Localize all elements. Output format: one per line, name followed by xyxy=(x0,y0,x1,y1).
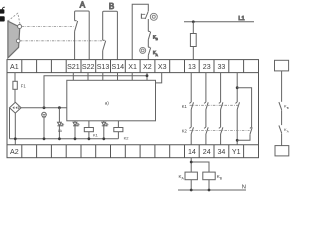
internal bottom bus xyxy=(10,138,119,140)
contact K2 on feedback branch xyxy=(250,127,252,134)
junction X2 stub xyxy=(146,74,149,77)
logic block a) xyxy=(67,80,156,121)
contact K2 on 33-34 xyxy=(219,127,223,134)
linkage K2 row (dash-dot) xyxy=(190,130,250,132)
terminal labels bottom row xyxy=(10,148,241,156)
svg-text:X3: X3 xyxy=(158,63,167,71)
junction feedback top xyxy=(236,86,239,89)
svg-text:S14: S14 xyxy=(111,63,124,71)
guard door open position (dashed outline) xyxy=(8,13,20,25)
net L1 xyxy=(184,21,254,23)
svg-text:B: B xyxy=(287,106,289,110)
output path 13-14 with contacts K1,K2 xyxy=(190,73,192,145)
internal supply bus xyxy=(21,107,67,109)
power supply unit (diamond) xyxy=(10,102,22,113)
junction LED2 x bottom bus xyxy=(74,137,77,140)
svg-text:23: 23 xyxy=(203,63,211,71)
mechanical link lower beam xyxy=(20,40,102,42)
wire KA to X2 xyxy=(147,55,149,59)
contact KA external xyxy=(279,125,282,133)
svg-text:N: N xyxy=(242,185,246,191)
net N xyxy=(178,189,246,191)
stub S14 xyxy=(117,73,119,81)
relay block outline xyxy=(7,60,259,158)
external device lower box (right column) xyxy=(275,146,289,156)
switch B enclosure with NC contact in left edge xyxy=(103,11,118,59)
contact K2 on 13-14 xyxy=(189,127,193,134)
svg-text:S13: S13 xyxy=(97,63,110,71)
svg-text:K2: K2 xyxy=(124,136,130,141)
svg-text:A1: A1 xyxy=(10,63,19,71)
feedback branch with contact K2 xyxy=(237,88,251,141)
svg-text:X1: X1 xyxy=(128,63,137,71)
stub S13 xyxy=(102,73,104,81)
svg-text:A: A xyxy=(156,53,158,57)
LED2 from logic block to bottom bus xyxy=(73,121,79,139)
icon padlock top-left xyxy=(0,7,5,13)
external device upper box (right column) xyxy=(275,60,289,71)
junction on L1 xyxy=(192,20,195,23)
guard door (gray panel) xyxy=(8,21,20,58)
svg-text:34: 34 xyxy=(217,148,225,156)
contact K1 on 23-24 xyxy=(204,102,208,109)
stub S21 xyxy=(72,73,74,81)
wire X2 terminal loop to supply bus xyxy=(44,73,147,108)
wire power supply to A2 xyxy=(14,113,16,145)
contact K2 on 23-24 xyxy=(204,127,208,134)
junction X2 drop x supply bus xyxy=(43,106,46,109)
svg-text:F1: F1 xyxy=(21,84,27,89)
junction LED1 x bottom bus xyxy=(58,137,61,140)
symbol circle at KA contact xyxy=(140,47,146,53)
svg-text:14: 14 xyxy=(188,148,196,156)
svg-text:33: 33 xyxy=(217,63,225,71)
svg-text:B: B xyxy=(156,37,158,41)
wire button to contact KB xyxy=(147,19,149,31)
hinge node lower xyxy=(16,39,20,43)
svg-text:S22: S22 xyxy=(82,63,95,71)
fuse F1 xyxy=(13,81,17,89)
start pushbutton S (manual actuator) xyxy=(141,12,148,20)
svg-text:K2: K2 xyxy=(182,128,188,133)
wire KA to lower box xyxy=(281,133,283,145)
svg-text:24: 24 xyxy=(203,148,211,156)
wire fuse to terminal 13 xyxy=(192,47,194,60)
varistor / clamp element on X2 drop xyxy=(42,112,47,117)
contact KA (feedback) in start unit xyxy=(148,47,150,55)
wire KB to KA external xyxy=(281,110,283,125)
start unit E wire from X1 up and over xyxy=(132,4,148,59)
internal rail from supply left vertex down xyxy=(9,108,11,139)
symbol circle at start button xyxy=(150,13,157,20)
terminal cell dividers xyxy=(22,60,244,158)
junction LED1 x supply bus xyxy=(58,106,61,109)
junction K1 x bottom bus xyxy=(88,137,91,140)
junction KA x N xyxy=(190,189,193,192)
svg-text:K1: K1 xyxy=(93,133,99,138)
svg-text:A: A xyxy=(287,129,289,133)
svg-text:A: A xyxy=(80,0,86,9)
contactor coil KB xyxy=(203,172,215,180)
svg-text:a): a) xyxy=(105,101,110,106)
junction A2 wire x bottom bus xyxy=(14,137,17,140)
svg-text:A2: A2 xyxy=(10,148,19,156)
relay coil K1 xyxy=(84,121,93,139)
linkage K1 row (dash-dot) xyxy=(190,104,239,106)
contact K1 on 33-34 xyxy=(219,102,223,109)
junction KB x N xyxy=(208,189,211,192)
junction feedback bottom xyxy=(236,139,239,142)
stub X1 xyxy=(131,73,133,81)
wire A1 to fuse F1 xyxy=(14,73,16,82)
junction clamp x bottom bus xyxy=(43,137,46,140)
hinge node upper xyxy=(18,25,22,29)
output path 23-24 with contacts K1,K2 xyxy=(205,73,207,145)
LED1 with wire from supply bus to bottom bus xyxy=(57,108,63,139)
wire F1 to power supply xyxy=(14,89,16,102)
LED3 from logic block to bottom bus xyxy=(102,121,108,139)
junction at 14 branch xyxy=(190,161,193,164)
terminal labels top row xyxy=(10,63,225,71)
wires coils to N xyxy=(191,180,209,190)
feedback path to Y1 xyxy=(236,73,238,145)
svg-text:B: B xyxy=(109,2,114,11)
icon manual top-left xyxy=(0,16,5,21)
contact K1 on feedback path xyxy=(235,102,239,109)
contact KB external xyxy=(279,102,282,110)
terminal strip top xyxy=(7,72,259,74)
svg-text:S21: S21 xyxy=(67,63,80,71)
stub S22 xyxy=(87,73,89,81)
switch A enclosure with NC contact in left edge xyxy=(75,11,90,60)
wire KB to KA xyxy=(147,40,149,48)
wire L1 to fuse xyxy=(192,22,194,34)
contactor coil KA xyxy=(185,172,197,180)
output path 33-34 with contacts K1,K2 xyxy=(220,73,222,145)
svg-text:13: 13 xyxy=(188,63,196,71)
relay coil K2 xyxy=(114,121,123,139)
wire upper box to KB contact xyxy=(281,71,283,102)
fuse F0 (line fuse) xyxy=(190,34,196,47)
svg-text:K1: K1 xyxy=(182,104,188,109)
svg-text:L1: L1 xyxy=(238,16,244,22)
svg-text:Y1: Y1 xyxy=(232,148,241,156)
stub X3 to logic block xyxy=(156,73,162,83)
mechanical link upper beam xyxy=(22,25,74,27)
wire clamp to bottom bus xyxy=(43,117,45,139)
svg-text:X2: X2 xyxy=(143,63,152,71)
contact KB (feedback) in start unit xyxy=(148,31,150,39)
junction LED3 x bottom bus xyxy=(102,137,105,140)
terminal strip bottom xyxy=(7,144,259,146)
wire 14 to contactor coils xyxy=(191,158,209,172)
contact K1 on 13-14 xyxy=(189,102,193,109)
